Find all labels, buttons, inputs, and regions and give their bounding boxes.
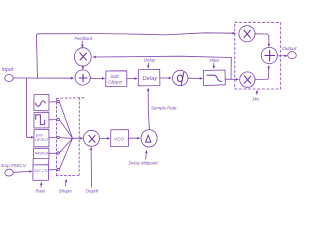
all-pass phase stage U3 phi <box>173 70 188 85</box>
wire filter output to wet multiplier <box>225 78 239 81</box>
wire summer to output port <box>278 55 288 58</box>
wire VCO to triangle oscillator <box>129 137 141 140</box>
svg-text:Soft: Soft <box>111 74 120 79</box>
shape selector switch SW1 <box>57 100 83 170</box>
svg-text:Clipper: Clipper <box>108 80 123 85</box>
external control box <box>33 159 57 181</box>
delay line U2 <box>138 69 160 85</box>
delay midpoint control label <box>129 150 159 166</box>
wire feedback return from filter output to X1 <box>92 56 231 59</box>
filter cutoff control label <box>210 58 220 69</box>
envelope detector box <box>34 129 57 146</box>
svg-text:Delay Midpoint: Delay Midpoint <box>129 161 159 166</box>
svg-text:Depth: Depth <box>86 189 99 194</box>
wire feedback tap junction up from wet line <box>230 58 232 80</box>
delay time control label <box>144 58 156 69</box>
triangle wave oscillator U6 <box>141 130 157 147</box>
output summer S2 <box>261 47 277 63</box>
feedback control label <box>75 36 94 48</box>
shape control label <box>59 179 73 194</box>
wire dry signal branch up and across top <box>36 32 236 78</box>
wire X2 to VCO <box>99 137 110 140</box>
low-pass filter U4 <box>203 70 225 86</box>
wire soft clipper to delay <box>127 77 138 80</box>
summer S1 input plus feedback <box>75 70 90 85</box>
svg-text:Mix: Mix <box>253 97 261 102</box>
sample rate wire triangle osc to delay <box>147 88 177 130</box>
wire phase stage to filter <box>188 77 203 80</box>
random source box <box>34 148 57 158</box>
svg-text:Shape: Shape <box>59 189 73 194</box>
input port J1 <box>2 67 14 82</box>
output port J3 <box>282 46 297 59</box>
svg-text:Rate: Rate <box>36 189 46 194</box>
wire X1 to summer <box>82 66 85 70</box>
soft clipper U1 <box>106 71 127 87</box>
mix section dashed enclosure <box>235 22 281 89</box>
multiplier X1 feedback amount <box>74 48 91 66</box>
VCO U5 <box>111 130 129 147</box>
mix control label <box>253 90 261 102</box>
multiplier X3 dry level <box>239 26 255 42</box>
svg-text:Delay: Delay <box>144 58 156 63</box>
shape selector dashed enclosure <box>56 98 83 176</box>
wire input to summer <box>13 77 74 80</box>
rate control label <box>36 182 46 194</box>
svg-text:Delay: Delay <box>143 76 159 82</box>
svg-text:EXT CTL: EXT CTL <box>34 169 48 173</box>
depth control wire and label <box>86 147 99 194</box>
svg-text:RANDOM: RANDOM <box>35 152 50 156</box>
svg-text:Input: Input <box>2 67 14 73</box>
wire delay to phase element <box>160 77 172 80</box>
wire X3 to output summer <box>255 34 270 47</box>
LFO square shape box <box>34 112 57 128</box>
wire summer to soft clipper <box>90 77 105 80</box>
svg-text:DETECT: DETECT <box>35 138 49 142</box>
multiplier X2 depth <box>84 130 100 146</box>
multiplier X4 wet level <box>240 72 255 87</box>
LFO sine shape box <box>34 94 57 110</box>
wire exp FM CV to external control box <box>13 170 33 173</box>
svg-text:Exp FM/CV: Exp FM/CV <box>2 163 27 169</box>
exp FM CV input port J2 <box>2 163 27 176</box>
svg-text:Filter: Filter <box>210 58 220 63</box>
svg-text:VCO: VCO <box>114 137 124 142</box>
wire X4 to output summer <box>255 65 270 80</box>
svg-text:Feedback: Feedback <box>75 36 94 41</box>
wire input branch down to envelope detector <box>26 78 34 139</box>
svg-text:Output: Output <box>282 46 297 52</box>
svg-text:Sample Rate: Sample Rate <box>151 106 177 111</box>
